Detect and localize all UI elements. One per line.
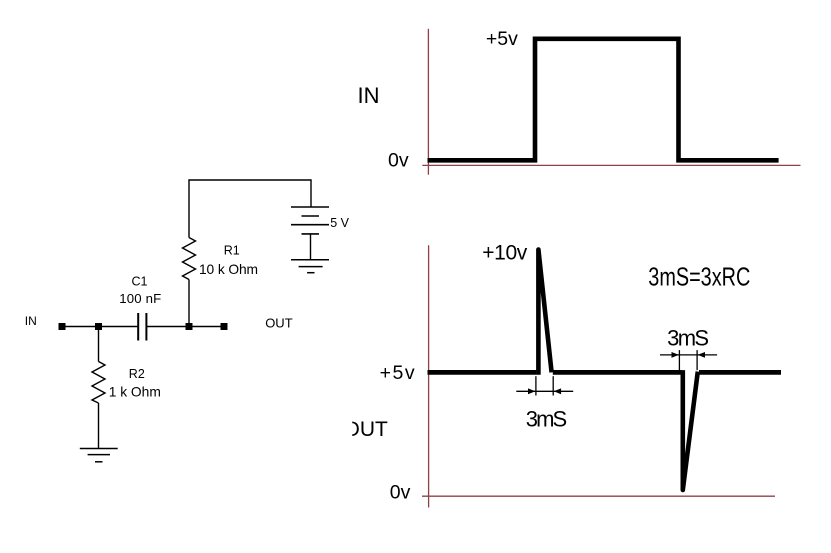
svg-text:0v: 0v <box>388 150 409 172</box>
dimension line spike 2 <box>660 354 717 356</box>
extension lines spike 2 <box>679 350 697 370</box>
wire main horizontal <box>62 326 224 328</box>
svg-text:IN: IN <box>25 314 37 328</box>
node OUT terminal <box>221 323 228 330</box>
wire R2 top <box>98 330 100 362</box>
svg-text:1 k Ohm: 1 k Ohm <box>109 385 161 400</box>
svg-text:C1: C1 <box>132 274 148 288</box>
svg-text:IN: IN <box>358 83 380 108</box>
battery B1 <box>291 207 329 234</box>
node junction R2 <box>95 323 102 330</box>
capacitor C1 <box>138 313 146 341</box>
wire battery to ground <box>310 234 312 260</box>
waveform +5v segment 3 <box>699 370 781 375</box>
wire R2 bottom <box>98 403 100 448</box>
wire R1 bottom <box>188 280 190 324</box>
dimension arrow left spike 1 <box>528 388 535 394</box>
svg-text:R1: R1 <box>224 243 240 257</box>
wire R1 top to battery <box>189 180 311 238</box>
svg-text:3mS=3xRC: 3mS=3xRC <box>648 262 750 292</box>
axis horizontal top chart <box>422 164 800 166</box>
axis vertical top chart <box>427 29 429 175</box>
dimension arrow right spike 2 <box>698 352 705 358</box>
waveform IN pulse <box>428 39 779 161</box>
svg-text:+5v: +5v <box>486 28 518 50</box>
svg-text:3mS: 3mS <box>526 406 568 431</box>
resistor R2 <box>92 362 105 404</box>
svg-text:+5v: +5v <box>380 362 415 384</box>
svg-text:+10v: +10v <box>482 241 528 264</box>
waveform +5v segment 1 <box>428 370 537 375</box>
ground R2 <box>80 449 118 462</box>
dimension arrow right spike 1 <box>554 388 561 394</box>
svg-text:0v: 0v <box>390 482 411 504</box>
svg-text:R2: R2 <box>129 367 145 381</box>
resistor R1 <box>183 238 196 280</box>
axis vertical bottom chart <box>428 245 430 507</box>
extension lines spike 1 <box>536 376 553 395</box>
node IN terminal <box>59 323 66 330</box>
svg-text:OUT: OUT <box>265 316 293 331</box>
svg-text:10 k Ohm: 10 k Ohm <box>199 262 258 277</box>
waveform spike up <box>538 250 551 375</box>
waveform spike down <box>683 370 698 490</box>
node junction R1/OUT <box>186 323 193 330</box>
axis horizontal bottom chart <box>422 495 775 497</box>
svg-text:3mS: 3mS <box>667 325 709 350</box>
ground battery <box>291 260 329 273</box>
white clip over OUT <box>330 415 352 440</box>
dimension arrow left spike 2 <box>672 352 679 358</box>
dimension line spike 1 <box>516 390 573 392</box>
svg-text:100 nF: 100 nF <box>119 291 161 306</box>
svg-text:5 V: 5 V <box>330 216 349 230</box>
waveform +5v segment 2 <box>553 370 682 375</box>
